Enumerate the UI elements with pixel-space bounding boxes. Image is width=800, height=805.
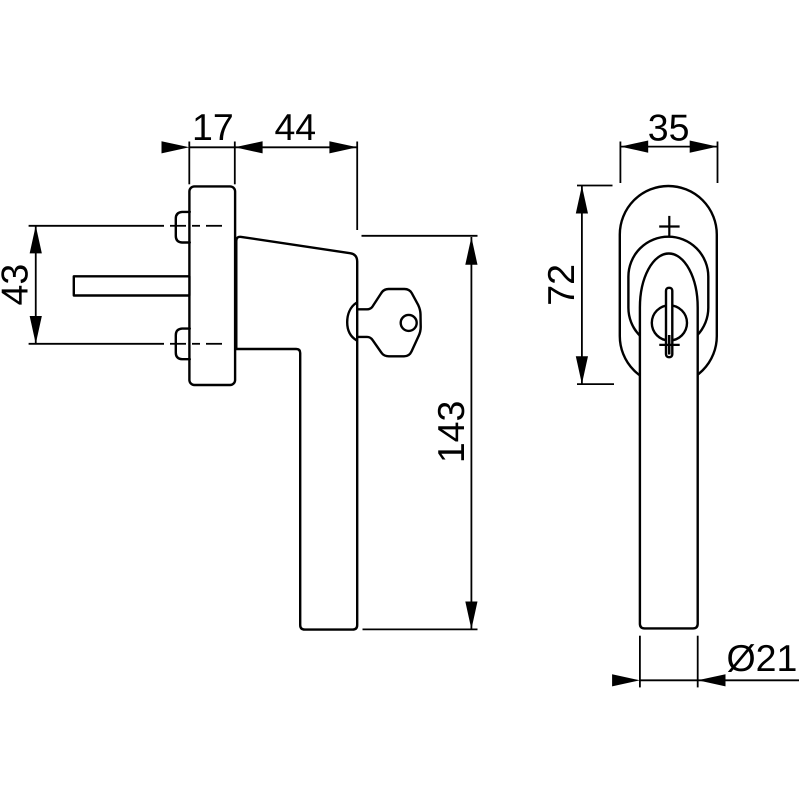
- ext line 35 left: [619, 142, 621, 184]
- ext line d21 left: [639, 636, 641, 688]
- dimension lines: [29, 142, 799, 688]
- arrow 17 left outside: [162, 141, 190, 153]
- ext line 72 top: [577, 185, 613, 187]
- key bow: [357, 289, 421, 356]
- arrow 35 right: [690, 141, 718, 153]
- svg-text:17: 17: [192, 106, 234, 148]
- ext line 17 left: [188, 142, 190, 185]
- arrow 72 top: [576, 186, 588, 214]
- svg-text:Ø21: Ø21: [727, 637, 798, 679]
- keyway bar: [666, 288, 672, 357]
- ext line 143 bottom: [363, 628, 478, 630]
- dim d21 line: [640, 679, 698, 681]
- dim 72 line: [581, 186, 583, 384]
- dim 43 line: [35, 226, 37, 344]
- centerline dashes bottom screw: [170, 343, 186, 345]
- arrow 44 right: [329, 141, 357, 153]
- ext line 44 right: [356, 142, 358, 231]
- arrow d21 left outside: [612, 674, 640, 686]
- cross mark bottom: [659, 344, 679, 346]
- centerline dashes top screw: [170, 225, 186, 227]
- key tip bump: [347, 303, 356, 341]
- dim 35 line: [620, 146, 717, 148]
- cross mark top: [659, 216, 679, 237]
- arrow 143 top: [465, 237, 477, 265]
- svg-text:143: 143: [430, 401, 472, 464]
- arrow 35 left: [620, 141, 648, 153]
- arrow 43 top: [30, 226, 42, 254]
- key hole: [401, 315, 417, 331]
- arrows: [30, 141, 726, 687]
- ext line 72 bottom: [577, 383, 614, 385]
- cylinder circle: [652, 305, 687, 340]
- svg-text:72: 72: [540, 264, 582, 306]
- dim 17/44 line: [189, 146, 357, 148]
- ext line 43 top: [29, 225, 164, 227]
- arrow 43 bottom: [30, 316, 42, 344]
- keyway slot line: [668, 335, 671, 355]
- arrow 143 bottom: [465, 602, 477, 630]
- oval cap: [628, 237, 708, 348]
- arrow 72 bottom: [576, 356, 588, 384]
- arrow d21 right outside: [698, 674, 726, 686]
- screw nut bottom: [176, 329, 190, 360]
- arrow 17 right / 44 left: [235, 141, 263, 153]
- handle neck and grip side view: [236, 237, 357, 630]
- oval rose front view: [620, 186, 717, 385]
- ext line 17/44 mid: [234, 142, 236, 185]
- dim d21 tail: [698, 679, 799, 681]
- svg-text:44: 44: [274, 106, 316, 148]
- ext line 143 top: [362, 235, 478, 237]
- neck and grip front view: [640, 254, 698, 629]
- ext line 43 bottom: [29, 343, 164, 345]
- svg-text:43: 43: [0, 264, 36, 306]
- right view: [620, 186, 717, 628]
- rose plate side view: [189, 186, 235, 385]
- ext line 35 right: [717, 142, 719, 184]
- ext line d21 right: [697, 636, 699, 688]
- dim 143 line: [470, 237, 472, 629]
- spindle shaft: [74, 276, 190, 295]
- screw nut top: [176, 212, 190, 243]
- svg-text:35: 35: [648, 107, 690, 149]
